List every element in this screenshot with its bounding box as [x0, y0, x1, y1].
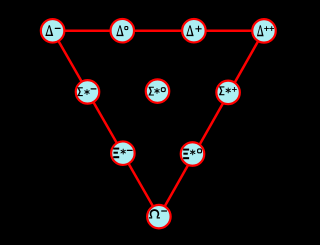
node Sigma*0	[146, 79, 170, 103]
node Xi*-	[111, 141, 134, 165]
node Sigma*+	[216, 81, 240, 105]
wire right edge (Delta++ to Omega-)	[159, 31, 264, 217]
wire left edge (Delta- to Omega-)	[53, 31, 159, 217]
node Delta0	[111, 19, 135, 43]
node Omega-	[147, 205, 171, 229]
node Delta++	[252, 19, 276, 43]
node Sigma*-	[76, 80, 100, 104]
wire top edge (Delta- to Delta++)	[53, 30, 264, 33]
node Delta+	[182, 19, 206, 43]
node Delta-	[41, 19, 65, 43]
node Xi*0	[181, 142, 205, 166]
